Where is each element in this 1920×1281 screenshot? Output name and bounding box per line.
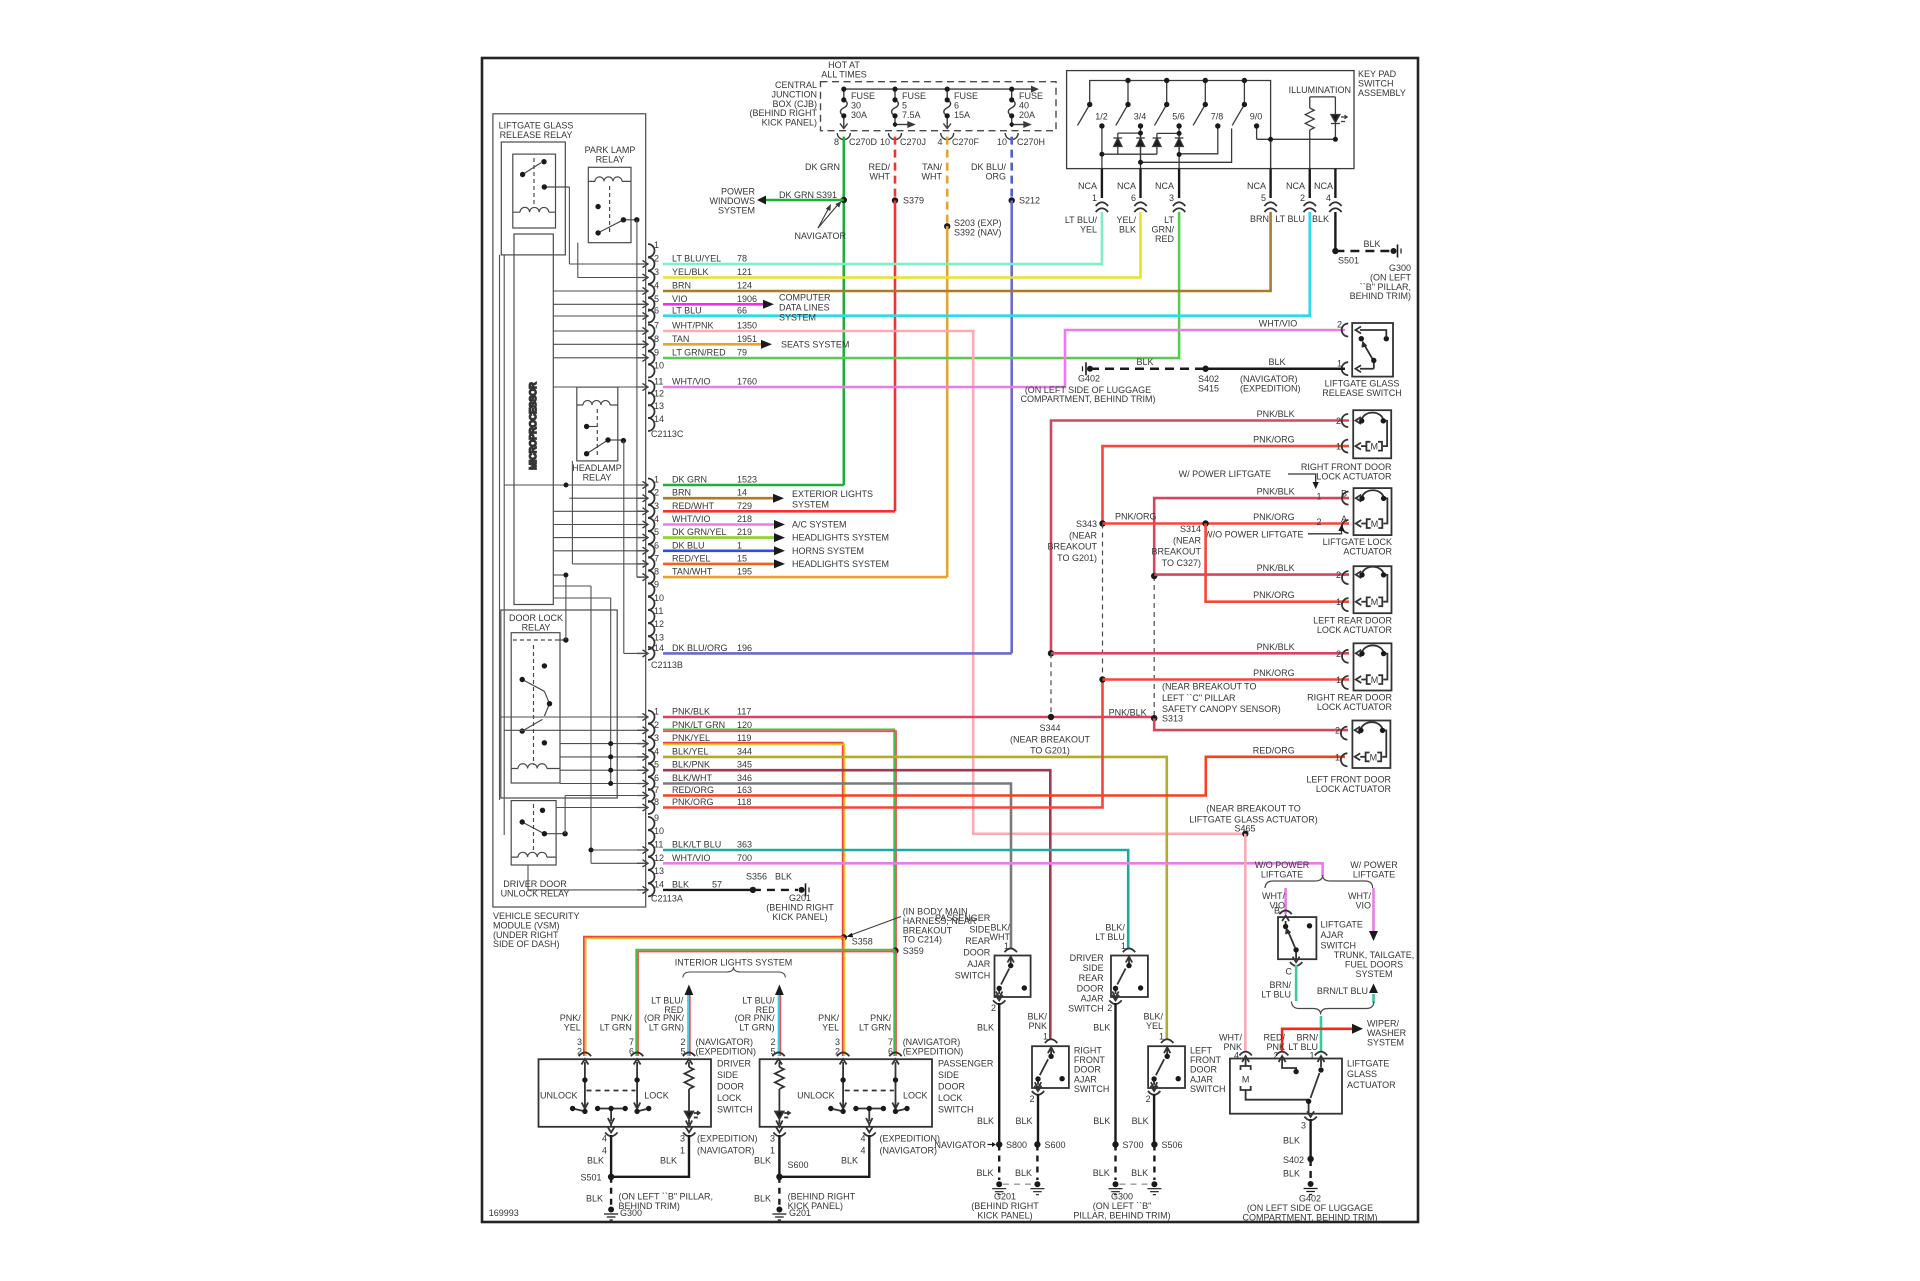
splice S700: [1112, 1141, 1118, 1147]
svg-text:57: 57: [712, 879, 722, 889]
wire PNK/BLK to left rear door lock actuator pin2: [1154, 573, 1349, 576]
svg-text:121: 121: [737, 267, 752, 277]
diode D2: [1140, 133, 1142, 138]
svg-text:A/C SYSTEM: A/C SYSTEM: [792, 520, 847, 530]
svg-text:119: 119: [737, 733, 751, 743]
svg-text:TO G201): TO G201): [1030, 746, 1070, 756]
wire BLK right front ajar to S600 splice: [1037, 1094, 1039, 1145]
wire BRN/LT BLU below liftgate ajar switch: [1295, 965, 1298, 1001]
splice S501 (driver switch): [608, 1174, 614, 1180]
splice S356: [750, 887, 756, 893]
svg-text:219: 219: [737, 527, 752, 537]
svg-text:G300: G300: [620, 1208, 642, 1218]
wire DK GRN C2113B pin1 to fuse30 drop: [663, 484, 844, 487]
svg-text:NCA: NCA: [1286, 181, 1305, 191]
wire BLK/LT BLU C2113A pin11 to driver side rear door ajar switch: [663, 850, 1128, 949]
svg-text:1: 1: [1316, 492, 1321, 502]
wire RED/ORG C2113A pin7 to left front door lock actuator: [663, 757, 1345, 796]
splice S313: [1151, 715, 1157, 721]
svg-text:13: 13: [654, 632, 664, 642]
svg-text:SYSTEM: SYSTEM: [1355, 969, 1392, 979]
svg-text:BLK: BLK: [1093, 1116, 1110, 1126]
svg-text:9: 9: [654, 813, 659, 823]
ground G201 (behind right kick panel, mid): [799, 887, 805, 893]
svg-text:LT GRN): LT GRN): [739, 1022, 774, 1032]
svg-text:LOCK ACTUATOR: LOCK ACTUATOR: [1317, 625, 1393, 635]
svg-text:8: 8: [654, 567, 659, 577]
wire BLK dashed G402 to S402: [1090, 368, 1206, 370]
svg-text:7.5A: 7.5A: [902, 110, 921, 120]
connector C2113A pin arcs: [648, 711, 655, 897]
svg-text:LOCK: LOCK: [644, 1091, 669, 1101]
svg-text:5/6: 5/6: [1172, 112, 1185, 122]
svg-text:6: 6: [654, 306, 659, 316]
wire TAN to seats system: [663, 343, 761, 346]
svg-text:B: B: [1341, 489, 1347, 499]
svg-text:PNK: PNK: [1028, 1021, 1047, 1031]
svg-text:HEADLIGHTS SYSTEM: HEADLIGHTS SYSTEM: [792, 533, 889, 543]
svg-text:PNK: PNK: [1223, 1042, 1242, 1052]
svg-text:4: 4: [654, 281, 659, 291]
svg-text:COMPARTMENT, BEHIND TRIM): COMPARTMENT, BEHIND TRIM): [1020, 394, 1155, 404]
pin 5 keypad terminal: [1270, 139, 1272, 168]
svg-text:218: 218: [737, 514, 752, 524]
svg-text:YEL: YEL: [1080, 224, 1097, 234]
svg-text:2: 2: [1336, 649, 1341, 659]
svg-text:PNK/ORG: PNK/ORG: [1253, 668, 1295, 678]
ground G201 pair (bottom middle): [996, 1181, 1002, 1187]
svg-text:LIFTGATE GLASS: LIFTGATE GLASS: [499, 121, 574, 131]
svg-text:1760: 1760: [737, 377, 757, 387]
wire RED/WHT C2113B pin3 to S379 drop: [663, 510, 895, 513]
svg-text:2: 2: [1146, 1094, 1151, 1104]
keypad switch contact dots: [1087, 78, 1338, 165]
svg-text:LT GRN/RED: LT GRN/RED: [672, 347, 726, 357]
svg-text:2: 2: [991, 1003, 996, 1013]
svg-text:TO G201): TO G201): [1057, 553, 1097, 563]
labels: HOT AT ALL TIMES: [750, 60, 1046, 147]
wire WHT/VIO C2113C pin11 to liftgate glass release switch pin2: [663, 330, 1345, 387]
svg-text:DATA LINES: DATA LINES: [779, 303, 830, 313]
svg-text:SIDE: SIDE: [1083, 963, 1104, 973]
svg-text:BLK: BLK: [1132, 1116, 1149, 1126]
svg-text:DRIVER: DRIVER: [1070, 953, 1105, 963]
svg-text:4: 4: [654, 746, 659, 756]
svg-text:WHT/PNK: WHT/PNK: [672, 321, 714, 331]
svg-text:BLK/LT BLU: BLK/LT BLU: [672, 840, 721, 850]
splice dot PNK/ORG junction: [1099, 676, 1105, 682]
svg-text:PILLAR, BEHIND TRIM): PILLAR, BEHIND TRIM): [1073, 1210, 1170, 1220]
svg-text:AJAR: AJAR: [1321, 930, 1345, 940]
svg-text:LIFTGATE: LIFTGATE: [1321, 920, 1363, 930]
svg-text:2: 2: [654, 254, 659, 264]
wire PNK/ORG to right front door lock actuator pin1: [1103, 446, 1350, 523]
svg-text:S392 (NAV): S392 (NAV): [954, 227, 1001, 237]
splice S402/S415: [1202, 366, 1208, 372]
diode D3: [1156, 133, 1158, 138]
svg-text:PNK/ORG: PNK/ORG: [672, 797, 714, 807]
svg-text:BLK: BLK: [1015, 1168, 1032, 1178]
svg-text:3: 3: [654, 501, 659, 511]
svg-text:NCA: NCA: [1314, 181, 1333, 191]
svg-text:REAR: REAR: [965, 936, 991, 946]
vehicle security module (VSM) box: [493, 114, 646, 907]
svg-text:NCA: NCA: [1155, 181, 1174, 191]
svg-text:LIFTGATE GLASS: LIFTGATE GLASS: [1325, 379, 1400, 389]
diode D4: [1178, 133, 1180, 138]
svg-text:66: 66: [737, 306, 747, 316]
svg-text:C2113B: C2113B: [651, 660, 683, 670]
svg-text:SIDE OF DASH): SIDE OF DASH): [493, 939, 560, 949]
svg-text:KICK PANEL): KICK PANEL): [762, 118, 817, 128]
connector C2113A pin entry arrows: [637, 713, 648, 893]
svg-text:12: 12: [654, 853, 664, 863]
svg-text:VIO: VIO: [672, 294, 688, 304]
svg-text:2: 2: [1336, 416, 1341, 426]
svg-text:RELAY: RELAY: [583, 472, 612, 482]
svg-text:BLK: BLK: [775, 872, 792, 882]
svg-text:DK GRN: DK GRN: [672, 475, 707, 485]
wire BRN/LT BLU to liftgate glass actuator pin1: [1320, 1016, 1323, 1052]
svg-text:TAN/WHT: TAN/WHT: [672, 567, 713, 577]
svg-text:C2113A: C2113A: [651, 894, 683, 904]
svg-text:M: M: [1371, 675, 1379, 685]
svg-text:WHT/VIO: WHT/VIO: [672, 514, 711, 524]
merge brace to liftgate glass actuator pin1: [1291, 1002, 1373, 1015]
svg-text:ASSEMBLY: ASSEMBLY: [1358, 88, 1406, 98]
connector C2113B pin entry arrows: [637, 481, 648, 657]
svg-text:LOCK ACTUATOR: LOCK ACTUATOR: [1316, 784, 1392, 794]
svg-text:LOCK: LOCK: [717, 1093, 742, 1103]
left front door ajar switch: [1148, 1039, 1185, 1095]
svg-text:SWITCH: SWITCH: [955, 971, 991, 981]
svg-text:YEL/BLK: YEL/BLK: [672, 267, 709, 277]
svg-text:C270D: C270D: [849, 137, 878, 147]
svg-text:SWITCH: SWITCH: [1321, 941, 1357, 951]
passenger side rear door ajar switch: [993, 948, 1031, 1004]
svg-text:BLK: BLK: [1093, 1168, 1110, 1178]
svg-text:8: 8: [834, 137, 839, 147]
ground G402 (luggage compartment, upper): [1087, 366, 1093, 372]
svg-text:6: 6: [1131, 193, 1136, 203]
svg-text:SYSTEM: SYSTEM: [792, 500, 829, 510]
svg-text:3: 3: [654, 733, 659, 743]
NCA labels: [1065, 181, 1333, 244]
wire PNK/BLK to right rear door lock actuator pin2: [1051, 652, 1349, 655]
wire BLK driver rear ajar to S700: [1114, 1003, 1116, 1145]
svg-text:DOOR: DOOR: [963, 948, 991, 958]
svg-text:196: 196: [737, 643, 752, 653]
svg-text:729: 729: [737, 501, 752, 511]
svg-text:(NEAR: (NEAR: [1173, 535, 1202, 545]
svg-text:20A: 20A: [1019, 110, 1035, 120]
svg-text:SIDE: SIDE: [717, 1070, 738, 1080]
wire labels above driver door lock switch: [560, 996, 756, 1057]
note: W/ POWER LIFTGATE: [1179, 469, 1271, 479]
svg-text:LOCK ACTUATOR: LOCK ACTUATOR: [1317, 702, 1393, 712]
svg-text:INTERIOR LIGHTS SYSTEM: INTERIOR LIGHTS SYSTEM: [675, 958, 793, 968]
liftgate glass release relay: [501, 142, 569, 255]
svg-text:2: 2: [1316, 517, 1321, 527]
wire labels above passenger door lock switch: [735, 996, 964, 1057]
svg-text:YEL: YEL: [564, 1022, 581, 1032]
splice S344: [1048, 714, 1054, 720]
svg-text:4: 4: [1326, 193, 1331, 203]
svg-text:1: 1: [1335, 752, 1340, 762]
wire BLK keypad pin4 to S501: [1334, 212, 1336, 251]
wire RED/YEL C2113B pin7 to headlights system: [663, 563, 774, 566]
svg-text:S415: S415: [1198, 383, 1219, 393]
svg-text:C270J: C270J: [900, 137, 926, 147]
splice S314: [1202, 520, 1208, 526]
svg-text:KICK PANEL): KICK PANEL): [977, 1210, 1032, 1220]
svg-text:120: 120: [737, 720, 752, 730]
svg-text:KICK PANEL): KICK PANEL): [772, 912, 827, 922]
svg-text:124: 124: [737, 281, 752, 291]
svg-text:(EXPEDITION): (EXPEDITION): [696, 1046, 757, 1056]
svg-text:195: 195: [737, 567, 752, 577]
navigator pointer arrows: [818, 202, 841, 228]
wire PNK/BLK S313 to left front door lock actuator pin2: [1154, 718, 1348, 730]
svg-text:RED/YEL: RED/YEL: [672, 553, 711, 563]
svg-text:BLK: BLK: [1093, 1023, 1110, 1033]
C2113B pin numbers and labels: [651, 475, 889, 671]
svg-text:M: M: [1371, 597, 1379, 607]
svg-text:700: 700: [737, 853, 752, 863]
svg-text:345: 345: [737, 760, 752, 770]
wire LT GRN/RED keypad pin3 to C2113C pin9: [663, 212, 1179, 358]
wire LT BLU keypad pin2 to C2113C pin6: [663, 212, 1310, 316]
left front door lock actuator: [1341, 721, 1391, 769]
wire PNK/BLK to right front door lock actuator: [1051, 421, 1349, 654]
splice S600 (passenger switch): [776, 1174, 782, 1180]
svg-text:BLK: BLK: [1268, 357, 1285, 367]
svg-text:PNK/ORG: PNK/ORG: [1253, 435, 1295, 445]
svg-text:RIGHT: RIGHT: [1074, 1046, 1103, 1056]
svg-text:ACTUATOR: ACTUATOR: [1347, 1080, 1396, 1090]
svg-text:M: M: [1370, 442, 1378, 452]
svg-text:LEFT: LEFT: [1190, 1046, 1213, 1056]
dashed breakout S314 to S313: [1153, 576, 1155, 718]
connector C2113B pin arcs: [648, 479, 655, 660]
svg-text:169993: 169993: [489, 1208, 519, 1218]
wire BRN C2113B pin2 to exterior lights system: [663, 497, 773, 500]
SEC_RIGHT_END: [489, 907, 1226, 1221]
svg-text:BLK: BLK: [754, 1156, 771, 1166]
svg-text:M: M: [1242, 1075, 1250, 1085]
svg-text:6: 6: [654, 540, 659, 550]
svg-text:W/ POWER LIFTGATE: W/ POWER LIFTGATE: [1179, 469, 1271, 479]
svg-text:14: 14: [737, 488, 747, 498]
connector C2113C pin arcs: [648, 244, 655, 431]
svg-text:BLK: BLK: [1015, 1116, 1032, 1126]
svg-text:SWITCH: SWITCH: [1074, 1084, 1110, 1094]
svg-text:2: 2: [1337, 320, 1342, 330]
svg-text:PNK/BLK: PNK/BLK: [1257, 642, 1295, 652]
VSM internal wiring: [500, 187, 649, 890]
svg-text:WHT/VIO: WHT/VIO: [1259, 319, 1298, 329]
svg-text:S800: S800: [1006, 1140, 1027, 1150]
svg-text:S465: S465: [1234, 824, 1255, 834]
liftgate ajar switch: [1278, 910, 1316, 965]
splice S465: [1242, 831, 1248, 837]
svg-text:BRN/LT BLU: BRN/LT BLU: [1317, 986, 1368, 996]
svg-text:S600: S600: [788, 1160, 809, 1170]
svg-text:1: 1: [654, 707, 659, 717]
splice dot PNK/BLK lower junction: [1048, 650, 1054, 656]
driver side rear door ajar switch: [1109, 948, 1148, 1004]
svg-text:8: 8: [654, 797, 659, 807]
svg-text:11: 11: [654, 840, 663, 850]
C2113A pin numbers and labels: [651, 707, 834, 922]
svg-text:PNK/BLK: PNK/BLK: [1257, 487, 1295, 497]
svg-text:AJAR: AJAR: [1081, 993, 1105, 1003]
svg-text:BLK: BLK: [1283, 1169, 1300, 1179]
svg-text:LT GRN: LT GRN: [600, 1022, 632, 1032]
svg-text:2: 2: [1335, 726, 1340, 736]
svg-text:13: 13: [654, 866, 664, 876]
svg-text:PASSENGER: PASSENGER: [935, 913, 991, 923]
svg-text:BRN: BRN: [1250, 214, 1269, 224]
svg-text:3: 3: [770, 1134, 775, 1144]
svg-text:(EXPEDITION): (EXPEDITION): [880, 1134, 941, 1144]
svg-text:BLK: BLK: [1131, 1168, 1148, 1178]
splice S506: [1151, 1141, 1157, 1147]
svg-text:REAR: REAR: [1079, 973, 1105, 983]
svg-text:117: 117: [737, 707, 751, 717]
svg-text:NCA: NCA: [1117, 181, 1136, 191]
svg-text:S600: S600: [1045, 1140, 1066, 1150]
svg-text:M: M: [1370, 752, 1378, 762]
svg-text:C270H: C270H: [1017, 137, 1045, 147]
svg-text:UNLOCK: UNLOCK: [540, 1091, 578, 1101]
svg-text:DOOR: DOOR: [717, 1082, 745, 1092]
svg-text:A: A: [1341, 514, 1347, 524]
wire BLK/WHT C2113A pin6 to passenger side rear door ajar switch: [663, 784, 1011, 949]
wire RED/PNK to wiper/washer system: [1282, 1029, 1352, 1052]
svg-text:PNK/ORG: PNK/ORG: [1253, 590, 1295, 600]
wire LT BLU/RED driver door lock switch illumination: [687, 995, 689, 1056]
svg-text:BLK: BLK: [1119, 224, 1136, 234]
svg-text:S356: S356: [746, 872, 767, 882]
ground G402 (bottom): [1308, 1181, 1314, 1187]
note: W/O POWER LIFTGATE: [1204, 530, 1303, 540]
svg-text:RED/WHT: RED/WHT: [672, 501, 714, 511]
svg-text:LOCK ACTUATOR: LOCK ACTUATOR: [1316, 471, 1392, 481]
svg-text:1951: 1951: [737, 334, 757, 344]
keypad internal link diode top rails: [1118, 132, 1141, 134]
connector C2113C pin entry arrows: [637, 260, 648, 390]
svg-text:FRONT: FRONT: [1074, 1055, 1105, 1065]
wire DK BLU C2113B pin6 to horns system: [663, 549, 774, 552]
svg-text:RELEASE RELAY: RELEASE RELAY: [500, 130, 573, 140]
svg-text:S700: S700: [1123, 1140, 1144, 1150]
svg-text:BLK/YEL: BLK/YEL: [672, 746, 709, 756]
dashed breakout below S343: [1102, 524, 1104, 680]
interior lights system note and brace: [675, 958, 793, 968]
svg-text:YEL: YEL: [822, 1022, 839, 1032]
svg-text:10: 10: [654, 826, 664, 836]
svg-text:1: 1: [1336, 675, 1341, 685]
keypad internal link sw2 to sw5 tip: [1141, 129, 1232, 163]
svg-text:GLASS: GLASS: [1347, 1069, 1377, 1079]
wire LT BLU/YEL keypad pin1 to C2113C pin2: [663, 212, 1102, 264]
dashed breakout S344 riser: [1050, 653, 1052, 717]
svg-text:NCA: NCA: [1247, 181, 1266, 191]
svg-text:S314: S314: [1180, 524, 1201, 534]
svg-text:LIFTGATE: LIFTGATE: [1347, 1059, 1389, 1069]
svg-text:BLK: BLK: [977, 1116, 994, 1126]
wire DK BLU/ORG solid down to C2113B pin 14: [1010, 201, 1013, 654]
svg-text:(NAVIGATOR): (NAVIGATOR): [697, 1146, 755, 1156]
wire PNK/BLK C2113A pin1 to S344/S313: [663, 716, 1154, 719]
wire BLK liftgate glass actuator pin3 to S402: [1309, 1119, 1311, 1156]
svg-text:ACTUATOR: ACTUATOR: [1343, 546, 1392, 556]
svg-text:1: 1: [680, 1146, 685, 1156]
CJB output connector arcs C270D C270J C270F C270H: [837, 133, 1018, 140]
svg-text:S501: S501: [1338, 256, 1359, 266]
wire DK GRN to power windows system: [766, 199, 844, 202]
svg-text:1: 1: [737, 540, 742, 550]
svg-text:(EXPEDITION): (EXPEDITION): [697, 1134, 758, 1144]
ground G300 pair (bottom): [1113, 1181, 1119, 1187]
svg-text:HORNS SYSTEM: HORNS SYSTEM: [792, 546, 864, 556]
diode D1: [1117, 133, 1119, 138]
svg-text:10: 10: [880, 137, 890, 147]
svg-text:WHT/VIO: WHT/VIO: [672, 377, 711, 387]
microprocessor box: [514, 234, 553, 605]
svg-text:LT GRN): LT GRN): [649, 1022, 684, 1032]
svg-text:AJAR: AJAR: [967, 959, 991, 969]
svg-text:(NEAR BREAKOUT TO: (NEAR BREAKOUT TO: [1162, 682, 1257, 692]
svg-text:363: 363: [737, 840, 752, 850]
svg-text:1: 1: [1337, 358, 1342, 368]
border frame: [482, 58, 1418, 1222]
ground G300 (driver lock switch): [608, 1207, 614, 1213]
svg-text:SEATS SYSTEM: SEATS SYSTEM: [781, 339, 849, 349]
keypad common bus: [1090, 81, 1271, 169]
svg-text:3/4: 3/4: [1134, 112, 1147, 122]
svg-text:1: 1: [1043, 1032, 1048, 1042]
svg-text:PNK/LT GRN: PNK/LT GRN: [672, 720, 725, 730]
svg-text:DOOR: DOOR: [938, 1082, 966, 1092]
wire PNK/YEL S358 down to passenger door lock switch: [842, 938, 844, 1057]
svg-text:1: 1: [1121, 941, 1126, 951]
svg-text:(EXPEDITION): (EXPEDITION): [1240, 383, 1301, 393]
svg-text:PNK/BLK: PNK/BLK: [1257, 563, 1295, 573]
wire BRN/LT BLU up arrow to trunk system: [1372, 994, 1375, 1003]
svg-text:DOOR: DOOR: [1074, 1065, 1102, 1075]
wire VIO to computer data lines system: [663, 303, 763, 306]
svg-text:S359: S359: [903, 946, 924, 956]
svg-text:1: 1: [1336, 597, 1341, 607]
wire RED/WHT solid down to C2113B pin 3: [894, 201, 897, 512]
fuse 6 15A: [943, 89, 951, 128]
fuse 5 7.5A: [892, 89, 914, 127]
svg-text:1: 1: [654, 240, 659, 250]
svg-text:YEL: YEL: [1146, 1021, 1163, 1031]
svg-text:ALL TIMES: ALL TIMES: [821, 69, 867, 79]
svg-text:LOCK: LOCK: [938, 1093, 963, 1103]
wire BLK passenger rear ajar to S800: [998, 1003, 1000, 1145]
svg-text:7/8: 7/8: [1211, 112, 1224, 122]
svg-text:DK GRN: DK GRN: [805, 162, 840, 172]
wire BLK dashed to G300: [1335, 250, 1390, 252]
svg-text:118: 118: [737, 797, 751, 807]
svg-text:WHT: WHT: [922, 171, 943, 181]
svg-text:1/2: 1/2: [1095, 112, 1108, 122]
wire BLK C2113A pin14 to S356: [663, 889, 753, 891]
